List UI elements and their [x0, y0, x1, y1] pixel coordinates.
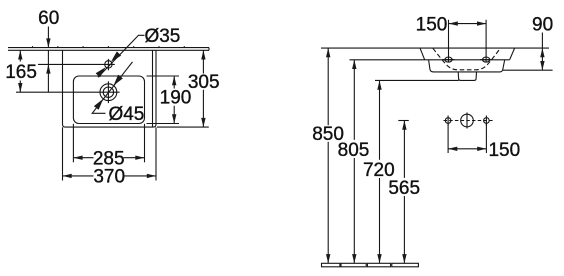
mounting hole right tick: [485, 116, 487, 126]
dimension 150 bottom left extension: [447, 124, 449, 153]
drain outlet tick: [466, 113, 468, 129]
tap hole centerline horizontal: [38, 63, 115, 65]
tap hole centerline vertical: [107, 59, 109, 70]
dimension 565 arrow down: [402, 254, 406, 263]
rim left slant: [420, 48, 425, 60]
floor segment 1: [322, 263, 340, 267]
drain stub outline: [458, 72, 476, 81]
dimension 90 leader and line: [541, 33, 543, 71]
mounting hole left: [445, 118, 451, 124]
dimension 805 line upper: [353, 60, 355, 140]
wall section bottom line: [8, 49, 209, 51]
dimension 190 arrow down: [172, 114, 176, 123]
dimension 565 line upper: [403, 121, 405, 178]
dimension 370 arrow left: [63, 174, 72, 178]
dimension 720 line lower: [379, 178, 381, 263]
arrow O45 lower: [94, 97, 106, 110]
dimension 165 arrow up: [18, 50, 22, 59]
wall section top line: [8, 47, 209, 49]
dimension 60 arrow down: [46, 38, 50, 47]
dimension 190 line lower: [173, 106, 175, 124]
svg-text:60: 60: [38, 8, 59, 29]
arrow O45 upper: [111, 75, 123, 88]
dimension 720 line upper: [379, 81, 381, 160]
dimension 805 line lower: [353, 158, 355, 263]
dimension 805 arrow down: [352, 254, 356, 263]
drain centerline horizontal: [16, 91, 120, 93]
tap hole left tick: [442, 59, 454, 61]
dimension 150 top left extension: [448, 20, 450, 62]
dimension 150 bottom arrow left: [448, 147, 457, 151]
svg-text:90: 90: [532, 14, 553, 35]
dimension 370 line right: [124, 175, 157, 177]
dimension 60 arrow up: [46, 64, 50, 73]
dimension 850 arrow up: [326, 48, 330, 57]
tap hole circle: [105, 61, 112, 68]
dimension 150 bottom right extension: [485, 124, 487, 153]
dimension 190 line upper: [173, 76, 175, 89]
dimension 305 arrow up: [201, 50, 205, 59]
dimension 190 arrow up: [172, 76, 176, 85]
svg-text:150: 150: [416, 15, 448, 36]
svg-text:190: 190: [160, 88, 192, 109]
dimension 285 arrow right: [135, 156, 144, 160]
drain centerline vertical: [107, 81, 109, 103]
drain inner circle: [103, 87, 113, 97]
dimension 165 line upper: [19, 50, 21, 61]
svg-text:Ø35: Ø35: [144, 26, 180, 47]
svg-text:150: 150: [488, 140, 520, 161]
floor segment 4: [392, 263, 419, 267]
svg-text:370: 370: [93, 166, 125, 187]
dimension 165 arrow down: [18, 83, 22, 92]
dimension 285 right extension line: [144, 124, 146, 163]
drain outlet circle: [461, 114, 474, 127]
leader line O45: [92, 62, 132, 113]
dimension 165 line lower: [19, 81, 21, 93]
720 level extension line: [375, 79, 459, 81]
dimension 370 left extension line: [62, 127, 64, 180]
arrow O35 upper: [109, 51, 121, 63]
dimension 720 arrow down: [377, 254, 381, 263]
dimension 90 arrow up: [540, 48, 544, 57]
dimension 850 arrow down: [326, 254, 330, 263]
basin body outline: [429, 60, 505, 72]
basin outer outline (plan): [63, 50, 157, 127]
rim right slant: [510, 48, 515, 60]
dimension 565 arrow up: [402, 121, 406, 130]
565 level extension line: [398, 120, 409, 122]
arrow O35 lower: [96, 65, 108, 77]
floor segment 2: [341, 263, 366, 267]
floor segment 3: [367, 263, 390, 267]
dimension 285 line left: [73, 157, 93, 159]
svg-text:805: 805: [338, 140, 370, 161]
dimension 150 top arrow right: [477, 21, 486, 25]
mounting hole left tick: [447, 116, 449, 126]
tap hole right (elevation): [483, 57, 490, 62]
svg-text:165: 165: [5, 62, 37, 83]
dimension 90 bottom reference line: [503, 69, 553, 71]
dimension 805 arrow up: [352, 60, 356, 69]
leader line O35: [98, 35, 145, 77]
dimension 150 top arrow left: [449, 21, 458, 25]
dimension 370 arrow right: [147, 174, 156, 178]
dimension 285 arrow left: [73, 156, 82, 160]
svg-text:565: 565: [388, 178, 420, 199]
dimension 150 top line: [449, 23, 487, 25]
svg-text:Ø45: Ø45: [108, 104, 144, 125]
dimension 285 left extension line: [72, 124, 74, 163]
dimension 150 top right extension: [485, 20, 487, 62]
dimension 60 line upper: [47, 27, 49, 48]
mounting holes dashed centerline: [444, 120, 494, 122]
dimension 720 arrow up: [377, 81, 381, 90]
dimension 850 line upper: [327, 48, 329, 125]
rim top level line: [321, 47, 549, 49]
dimension 565 line lower: [403, 196, 405, 263]
wall section end cap: [208, 48, 210, 51]
dimension 90 arrow down: [540, 61, 544, 70]
dimension 305 line upper: [202, 50, 204, 73]
dimension 305 line lower: [202, 90, 204, 127]
dimension 190 top extension line: [147, 75, 180, 77]
mounting hole right: [484, 118, 490, 124]
dimension 370 right extension line: [155, 127, 157, 180]
dimension 150 bottom line: [448, 148, 486, 150]
tap hole left (elevation): [445, 57, 452, 62]
dimension 850 line lower: [327, 142, 329, 263]
dimension 370 line left: [63, 175, 94, 177]
basin right rim inner line: [152, 50, 154, 126]
svg-text:305: 305: [188, 72, 220, 93]
dimension 305 bottom extension line: [157, 126, 209, 128]
tap hole right tick: [480, 59, 492, 61]
bowl hidden profile dashed: [433, 48, 500, 70]
rim bottom line with 805 extension: [350, 59, 510, 61]
wall tick marks: [33, 46, 185, 48]
dimension 190 bottom extension line: [147, 123, 180, 125]
drain outer circle: [100, 84, 117, 101]
dimension 285 line right: [124, 157, 145, 159]
dimension 305 arrow down: [201, 118, 205, 127]
dimension 150 bottom arrow right: [477, 147, 486, 151]
dimension 60 line lower: [47, 50, 49, 92]
basin inner bowl outline: [73, 76, 144, 124]
